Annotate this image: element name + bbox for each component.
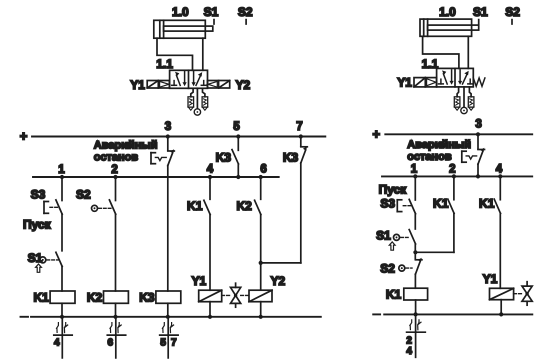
junction nodes on bottom rail (left) (60, 315, 263, 319)
svg-text:Y1: Y1 (483, 272, 498, 286)
svg-text:K3: K3 (283, 151, 299, 165)
minus terminal (right ladder) (373, 313, 380, 315)
contact reference flag under K1 with number 4 (left) (54, 317, 72, 358)
emergency stop NC mushroom contact (left, rung 3) (151, 137, 174, 178)
bottom rail (left ladder) (31, 316, 321, 318)
svg-text:4: 4 (207, 163, 214, 175)
junction node 6 on second rail (left) (259, 175, 263, 179)
wire rung7 to Y2 branch (left) (261, 262, 301, 264)
svg-text:6: 6 (108, 337, 114, 348)
relay contact K3 NC (left, rung 7) (301, 137, 308, 263)
valve 1.1 body (right) (437, 68, 474, 87)
second rail (left ladder) (33, 176, 279, 178)
svg-text:4: 4 (406, 346, 412, 357)
svg-text:3: 3 (475, 119, 481, 131)
svg-text:Аварийный: Аварийный (407, 139, 471, 151)
relay coil K1 (right) (404, 288, 428, 314)
emergency stop NC mushroom contact (right, rung 3) (462, 134, 485, 176)
valve right: left-position flow arrows (439, 70, 454, 85)
svg-text:S1: S1 (376, 228, 391, 242)
air supply line and source circle (right valve) (461, 87, 467, 114)
svg-text:2: 2 (111, 164, 117, 176)
svg-text:7: 7 (296, 121, 302, 133)
junction node 3 on top rail (right) (476, 132, 480, 136)
valve 1.1 right-position flow arrows (left) (192, 71, 207, 86)
pipe cylinder rod-end to valve (right) (467, 36, 469, 68)
svg-text:2: 2 (449, 164, 455, 176)
svg-text:Y2: Y2 (236, 78, 251, 92)
svg-text:Y2: Y2 (271, 274, 286, 288)
svg-text:Пуск: Пуск (23, 218, 52, 232)
svg-text:+: + (373, 126, 381, 141)
svg-text:Пуск: Пуск (379, 183, 408, 197)
solenoid operator Y1 of valve (right) (414, 78, 437, 87)
svg-text:6: 6 (260, 163, 266, 175)
contact reference flag under K3 with numbers 5 and 7 (left) (160, 317, 178, 358)
svg-text:S2: S2 (380, 262, 395, 276)
junction node rung6-rung7 (left) (259, 261, 263, 265)
svg-text:S3: S3 (380, 197, 395, 211)
contact reference flag under K1 with numbers 2 and 4 (right) (407, 314, 426, 357)
sensor mark S2 (left) (238, 5, 253, 24)
svg-text:5: 5 (160, 337, 166, 348)
svg-text:K2: K2 (236, 199, 252, 213)
svg-text:S3: S3 (31, 187, 46, 201)
svg-text:1: 1 (58, 164, 65, 176)
solenoid coil Y1 (right) (490, 288, 514, 314)
svg-text:K1: K1 (479, 197, 495, 211)
sensor mark S1 (left) (204, 5, 219, 24)
junction node 2 on second rail (left) (113, 175, 117, 179)
pipe cylinder cap-end to valve (right) (423, 36, 459, 68)
pushbutton S3 NO contact (left, rung 1) (44, 177, 62, 251)
svg-text:K3: K3 (139, 291, 155, 305)
reed sensor S1 NO contact (left, rung 1) (36, 252, 63, 291)
air supply line and source circle (left valve) (194, 88, 200, 115)
cylinder 1.0 (right) (420, 19, 479, 36)
solenoid operator Y1 of valve 1.1 (left) (147, 81, 169, 89)
pipe cylinder cap-end to valve port 4 (left) (157, 38, 193, 70)
sensor mark S2 (right) (505, 5, 520, 24)
svg-text:4: 4 (496, 164, 503, 176)
solenoid coil Y2 (left) (249, 290, 272, 317)
relay coil K3 (left) (156, 291, 181, 317)
junction node 5 on top rail (left) (236, 134, 240, 138)
pushbutton S3 NO contact (right, rung 1) (397, 176, 415, 229)
junction node branch (right) (413, 250, 417, 254)
relay coil K1 (left) (50, 291, 75, 317)
junction node 7 on top rail (left) (299, 134, 303, 138)
sensor mark S1 (right) (473, 5, 488, 24)
top supply rail (left ladder) (32, 136, 325, 138)
contact reference flag under K2 with number 6 (left) (107, 317, 125, 358)
exhaust silencer right port 3 (left valve) (202, 88, 208, 110)
label Avariyny ostanov (right) (407, 139, 471, 163)
label Avariyny ostanov (left) (94, 139, 158, 163)
top supply rail (right ladder) (385, 133, 532, 135)
junction node 4 on second rail (left) (208, 175, 212, 179)
solenoid operator Y2 of valve 1.1 (left) (208, 81, 230, 89)
minus terminal (left ladder) (21, 316, 29, 318)
svg-text:+: + (20, 129, 28, 144)
exhaust silencer right (right valve) (468, 87, 474, 110)
second rail (right ladder) (382, 175, 532, 177)
svg-text:1.0: 1.0 (439, 5, 456, 19)
svg-text:S2: S2 (238, 5, 253, 19)
valve actuation symbol at Y1 (right) (514, 282, 533, 306)
reed sensor S2 NO contact (left, rung 2) (92, 177, 116, 291)
cylinder 1.0 (left) (154, 20, 213, 38)
junction nodes on second rail (right) (413, 174, 502, 178)
svg-text:3: 3 (165, 121, 171, 133)
valve actuation symbol between Y1 and Y2 (left) (222, 283, 249, 307)
svg-text:1: 1 (411, 164, 418, 176)
valve 1.1 body (left) (170, 70, 208, 88)
junction nodes on bottom rail (right) (414, 312, 504, 316)
relay contact K2 NO (left, rung 6) (255, 177, 261, 290)
relay contact K1 NO (right, rung 4) (494, 176, 500, 288)
svg-text:K1: K1 (33, 291, 49, 305)
wire K1 branch to column 1 (right) (415, 251, 454, 253)
relay contact K1 NO (right, rung 2) (448, 176, 454, 252)
svg-text:останов: останов (94, 152, 139, 164)
svg-text:K1: K1 (433, 197, 449, 211)
svg-text:1.1: 1.1 (156, 57, 173, 71)
svg-text:S2: S2 (76, 187, 91, 201)
svg-text:K3: K3 (216, 151, 232, 165)
svg-text:1.0: 1.0 (172, 5, 189, 19)
relay contact K3 NO (left, rung 5) (232, 137, 238, 178)
svg-text:K1: K1 (386, 287, 402, 301)
svg-text:Y1: Y1 (192, 274, 207, 288)
relay contact K1 NO (left, rung 4) (204, 177, 210, 290)
svg-text:S1: S1 (473, 5, 488, 19)
bottom rail (right ladder) (384, 313, 532, 315)
wire emergency-stop column down to coil K3 (left) (167, 177, 169, 291)
valve right: right-position flow arrows (458, 70, 473, 85)
svg-text:4: 4 (54, 337, 60, 348)
return spring of valve (right) (473, 78, 485, 86)
svg-text:S2: S2 (505, 5, 520, 19)
svg-text:Аварийный: Аварийный (94, 139, 158, 151)
svg-text:Y1: Y1 (130, 78, 145, 92)
exhaust silencer left (right valve) (454, 87, 460, 110)
svg-text:S1: S1 (204, 5, 219, 19)
pipe cylinder rod-end to valve port 2 (left) (202, 38, 204, 70)
svg-text:5: 5 (233, 121, 240, 133)
svg-text:K1: K1 (187, 199, 203, 213)
junction node 3 on top rail (left) (166, 134, 170, 138)
junction node 1 on second rail (left) (60, 175, 64, 179)
reed sensor S1 NO contact (right) (389, 230, 415, 260)
junction node 5-to-rail (left) (236, 175, 240, 179)
valve 1.1 left-position flow arrows (left) (172, 71, 187, 86)
svg-text:Y1: Y1 (397, 76, 412, 90)
svg-text:останов: останов (407, 151, 452, 163)
solenoid coil Y1 (left) (199, 290, 222, 317)
svg-text:7: 7 (171, 337, 177, 348)
exhaust silencer left port 5 (left valve) (188, 88, 194, 110)
reed sensor S2 NC contact (right) (399, 258, 422, 289)
svg-text:K2: K2 (87, 291, 103, 305)
relay coil K2 (left) (104, 291, 129, 317)
